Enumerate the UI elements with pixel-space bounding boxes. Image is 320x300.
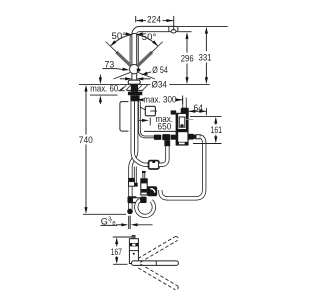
- svg-text:331: 331: [199, 53, 212, 63]
- svg-text:650: 650: [158, 122, 172, 132]
- svg-text:296: 296: [181, 54, 194, 64]
- svg-text:50°: 50°: [142, 32, 157, 42]
- svg-text:Ø34: Ø34: [152, 79, 168, 89]
- svg-text:224: 224: [147, 14, 161, 24]
- svg-text:50°: 50°: [112, 31, 127, 41]
- svg-text:161: 161: [211, 125, 222, 135]
- svg-text:max. 60: max. 60: [90, 83, 118, 93]
- svg-text:max. 300: max. 300: [143, 95, 176, 105]
- svg-text:73: 73: [105, 59, 115, 69]
- svg-text:64: 64: [194, 103, 204, 113]
- svg-text:Ø 54: Ø 54: [152, 65, 168, 75]
- svg-text:740: 740: [79, 135, 93, 145]
- svg-text:167: 167: [111, 247, 122, 257]
- svg-text:G: G: [101, 216, 108, 226]
